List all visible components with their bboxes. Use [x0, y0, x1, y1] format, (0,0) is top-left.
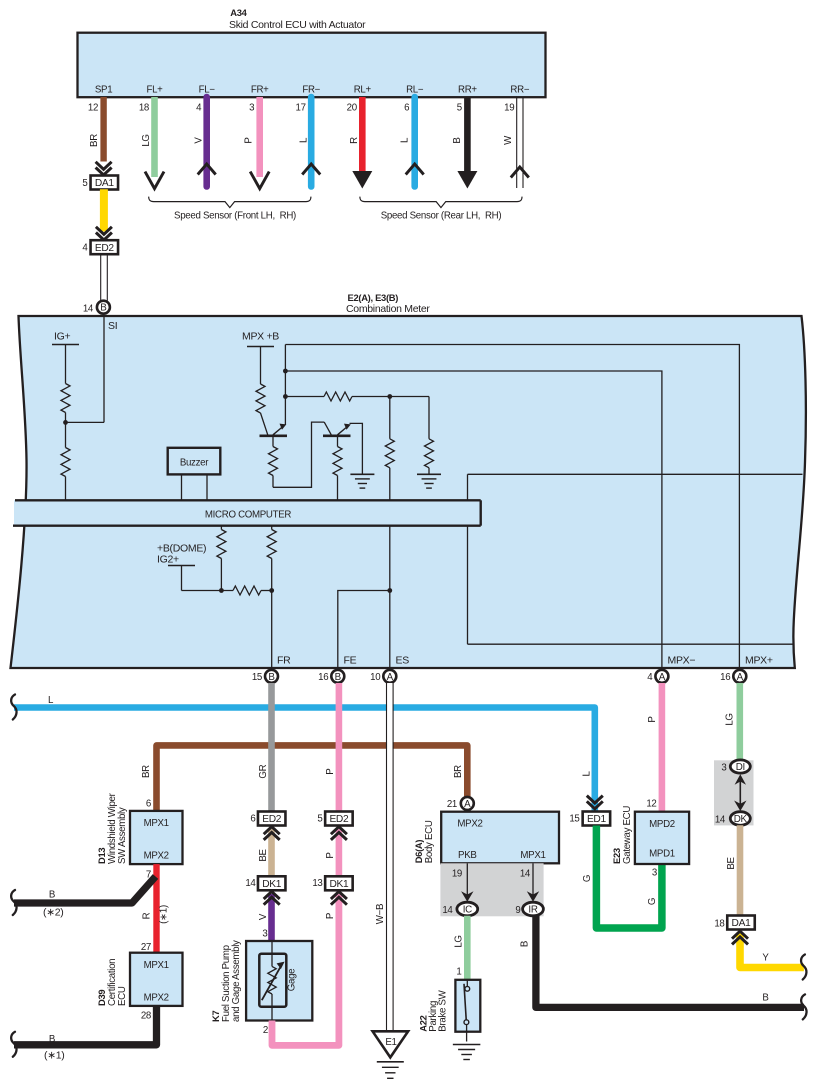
- svg-text:RR−: RR−: [510, 85, 529, 96]
- svg-text:12: 12: [646, 799, 656, 810]
- svg-text:BR: BR: [89, 134, 100, 147]
- svg-text:PKB: PKB: [458, 850, 477, 861]
- svg-text:FL+: FL+: [146, 85, 163, 96]
- svg-text:MPX2: MPX2: [144, 993, 169, 1004]
- svg-text:14: 14: [245, 878, 256, 889]
- svg-text:9: 9: [515, 905, 520, 916]
- svg-text:3: 3: [249, 103, 254, 114]
- svg-text:IG2+: IG2+: [157, 554, 179, 566]
- svg-text:B: B: [762, 992, 768, 1003]
- svg-text:12: 12: [88, 103, 98, 114]
- svg-text:1: 1: [456, 967, 461, 978]
- svg-text:RR+: RR+: [458, 85, 477, 96]
- svg-text:B: B: [335, 672, 342, 683]
- svg-text:14: 14: [83, 303, 94, 314]
- svg-text:4: 4: [82, 243, 88, 254]
- svg-text:Speed Sensor (Front LH, RH): Speed Sensor (Front LH, RH): [174, 211, 296, 222]
- svg-text:IC: IC: [463, 905, 472, 916]
- svg-text:LG: LG: [141, 134, 152, 146]
- svg-text:5: 5: [457, 103, 462, 114]
- svg-text:SW Assembly: SW Assembly: [117, 807, 128, 864]
- svg-text:3: 3: [652, 868, 657, 879]
- svg-text:FR: FR: [277, 655, 291, 667]
- svg-text:MPX2: MPX2: [144, 851, 169, 862]
- svg-text:21: 21: [447, 799, 457, 810]
- svg-text:MPX+: MPX+: [745, 655, 773, 667]
- svg-text:13: 13: [312, 878, 322, 889]
- svg-text:5: 5: [82, 178, 87, 189]
- svg-text:6: 6: [404, 103, 409, 114]
- svg-text:14: 14: [442, 905, 453, 916]
- svg-text:D39: D39: [96, 990, 107, 1006]
- svg-text:BE: BE: [726, 857, 737, 870]
- svg-text:MPD2: MPD2: [649, 819, 675, 830]
- svg-text:DI: DI: [736, 762, 745, 773]
- svg-text:Skid Control ECU with Actuator: Skid Control ECU with Actuator: [229, 19, 366, 31]
- svg-text:B: B: [49, 1034, 55, 1045]
- svg-text:A34: A34: [230, 7, 247, 18]
- svg-text:P: P: [647, 716, 658, 722]
- svg-text:B: B: [452, 137, 463, 143]
- svg-text:4: 4: [196, 103, 202, 114]
- svg-text:L: L: [582, 771, 593, 777]
- svg-text:W: W: [503, 135, 514, 145]
- svg-text:DK: DK: [734, 814, 748, 825]
- svg-text:L: L: [400, 137, 411, 143]
- svg-text:MPD1: MPD1: [649, 849, 675, 860]
- svg-text:SP1: SP1: [95, 85, 112, 96]
- svg-text:BR: BR: [453, 765, 464, 778]
- svg-text:MPX−: MPX−: [668, 655, 696, 667]
- svg-text:10: 10: [370, 672, 381, 683]
- svg-text:20: 20: [347, 103, 358, 114]
- svg-text:B: B: [268, 672, 275, 683]
- svg-text:A: A: [659, 672, 666, 683]
- svg-text:A: A: [737, 672, 744, 683]
- svg-text:MPX1: MPX1: [144, 960, 169, 971]
- svg-text:GR: GR: [258, 764, 269, 778]
- svg-text:FR+: FR+: [251, 85, 269, 96]
- svg-text:Y: Y: [762, 952, 769, 963]
- svg-text:E1: E1: [385, 1037, 396, 1048]
- svg-text:IR: IR: [528, 905, 537, 916]
- svg-text:E23: E23: [611, 848, 622, 864]
- svg-text:18: 18: [139, 103, 149, 114]
- svg-text:Speed Sensor (Rear LH, RH): Speed Sensor (Rear LH, RH): [381, 211, 502, 222]
- svg-text:E2(A), E3(B): E2(A), E3(B): [348, 292, 399, 303]
- svg-text:(∗1): (∗1): [159, 905, 170, 924]
- svg-text:BR: BR: [141, 765, 152, 778]
- svg-text:B: B: [100, 303, 107, 314]
- svg-text:G: G: [582, 875, 593, 882]
- svg-text:17: 17: [296, 103, 306, 114]
- svg-text:Gage: Gage: [287, 969, 298, 992]
- svg-text:W−B: W−B: [375, 904, 386, 924]
- svg-text:K7: K7: [210, 1011, 221, 1022]
- svg-text:MPX1: MPX1: [520, 850, 545, 861]
- svg-text:5: 5: [317, 814, 322, 825]
- svg-text:BE: BE: [258, 849, 269, 862]
- svg-text:19: 19: [504, 103, 514, 114]
- svg-text:IG+: IG+: [54, 331, 70, 343]
- svg-text:D6(A): D6(A): [413, 840, 424, 864]
- svg-text:A: A: [464, 799, 471, 810]
- svg-text:14: 14: [520, 869, 531, 880]
- svg-text:B: B: [520, 941, 531, 947]
- svg-text:ED2: ED2: [329, 814, 349, 825]
- svg-text:MPX2: MPX2: [457, 819, 482, 830]
- svg-text:ECU: ECU: [117, 986, 128, 1006]
- svg-text:MICRO COMPUTER: MICRO COMPUTER: [205, 510, 292, 521]
- svg-text:4: 4: [647, 672, 653, 683]
- svg-text:Body ECU: Body ECU: [424, 820, 435, 863]
- svg-text:B: B: [49, 890, 55, 901]
- svg-text:R: R: [349, 137, 360, 144]
- svg-text:P: P: [325, 769, 336, 775]
- svg-text:A: A: [387, 672, 394, 683]
- svg-text:14: 14: [715, 815, 726, 826]
- svg-text:LG: LG: [454, 935, 465, 947]
- svg-text:D13: D13: [96, 848, 107, 864]
- svg-text:3: 3: [262, 929, 267, 940]
- svg-text:ED2: ED2: [95, 243, 115, 254]
- svg-text:Brake SW: Brake SW: [438, 989, 449, 1031]
- svg-text:V: V: [193, 137, 204, 144]
- svg-text:DK1: DK1: [329, 879, 349, 890]
- svg-text:MPX1: MPX1: [144, 818, 169, 829]
- svg-text:6: 6: [146, 799, 151, 810]
- svg-text:15: 15: [569, 814, 579, 825]
- svg-text:3: 3: [721, 763, 726, 774]
- svg-text:Buzzer: Buzzer: [180, 458, 209, 469]
- svg-text:P: P: [325, 852, 336, 858]
- svg-text:6: 6: [250, 814, 255, 825]
- svg-text:18: 18: [714, 918, 724, 929]
- svg-text:DK1: DK1: [262, 879, 282, 890]
- svg-text:P: P: [244, 137, 255, 143]
- svg-text:R: R: [142, 912, 153, 919]
- svg-text:ED1: ED1: [587, 814, 607, 825]
- svg-text:(∗2): (∗2): [43, 907, 63, 919]
- svg-text:L: L: [299, 137, 310, 143]
- svg-text:2: 2: [263, 1025, 268, 1036]
- svg-text:27: 27: [141, 942, 151, 953]
- svg-text:28: 28: [141, 1011, 151, 1022]
- svg-text:ED2: ED2: [262, 814, 282, 825]
- svg-text:and Gage Assembly: and Gage Assembly: [231, 940, 242, 1022]
- svg-text:Combination Meter: Combination Meter: [346, 303, 430, 315]
- svg-text:DA1: DA1: [95, 178, 115, 189]
- svg-text:19: 19: [452, 869, 462, 880]
- svg-text:P: P: [325, 913, 336, 919]
- svg-text:A22: A22: [418, 1015, 429, 1031]
- svg-text:G: G: [647, 898, 658, 905]
- svg-text:(∗1): (∗1): [44, 1050, 64, 1062]
- svg-text:16: 16: [720, 672, 730, 683]
- svg-text:FE: FE: [344, 655, 357, 667]
- svg-text:DA1: DA1: [732, 918, 752, 929]
- svg-text:V: V: [258, 913, 269, 920]
- svg-text:LG: LG: [725, 713, 736, 725]
- svg-text:RL+: RL+: [354, 85, 372, 96]
- svg-text:MPX +B: MPX +B: [242, 331, 279, 343]
- svg-text:Gateway ECU: Gateway ECU: [622, 806, 633, 864]
- svg-text:ES: ES: [396, 655, 410, 667]
- svg-text:16: 16: [318, 672, 328, 683]
- svg-text:SI: SI: [108, 320, 117, 332]
- svg-text:15: 15: [252, 672, 262, 683]
